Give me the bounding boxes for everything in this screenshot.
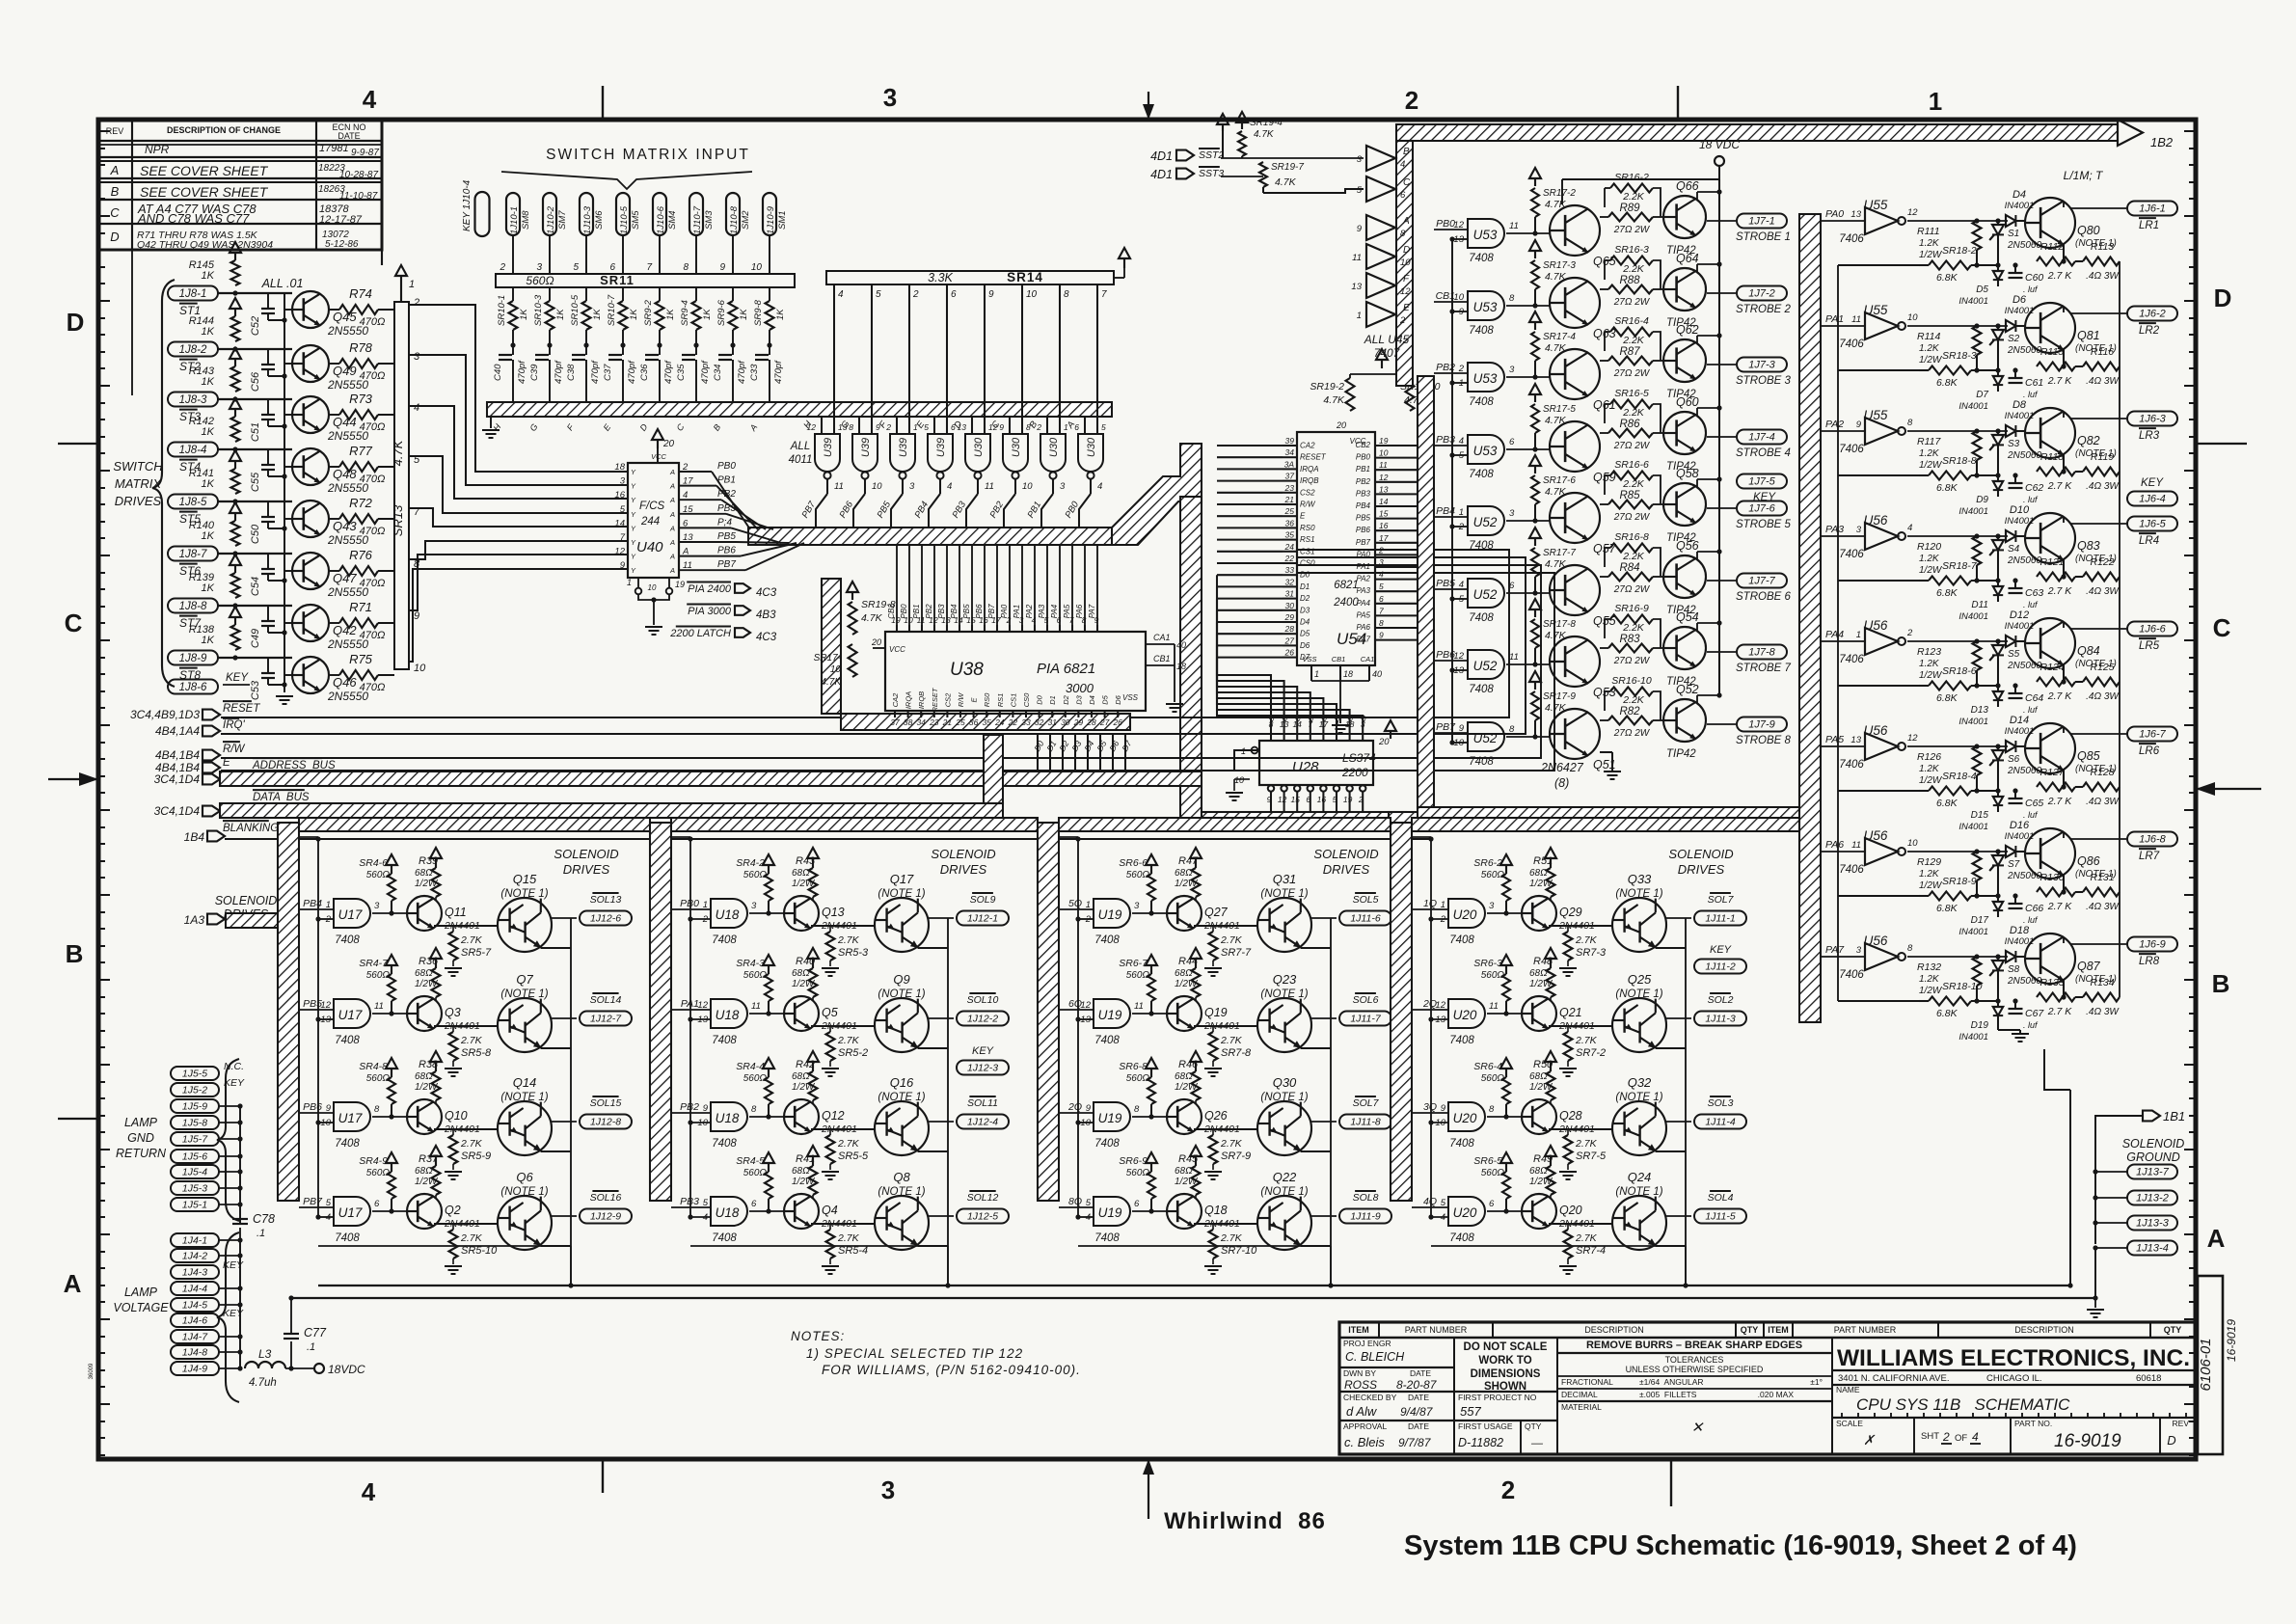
svg-text:L3: L3 (258, 1347, 272, 1361)
svg-text:CA1: CA1 (1361, 655, 1375, 663)
resistor SR17-3 4.7K (1534, 251, 1536, 258)
SCR S6 2N5060 (1992, 750, 2004, 760)
svg-text:IRQB: IRQB (917, 691, 926, 709)
svg-text:18: 18 (1343, 669, 1353, 679)
resistor R112 2.7K (2037, 257, 2075, 266)
svg-text:560Ω: 560Ω (743, 870, 768, 880)
svg-text:RESET: RESET (1300, 453, 1327, 462)
svg-text:Q83: Q83 (2077, 539, 2100, 553)
svg-text:8: 8 (1489, 1104, 1495, 1115)
svg-text:1J11-9: 1J11-9 (1350, 1211, 1380, 1223)
wire 1J10-2 to SR11 (549, 235, 551, 274)
svg-text:1/2W: 1/2W (1919, 250, 1943, 260)
svg-text:C51: C51 (250, 422, 261, 442)
svg-text:D: D (67, 308, 85, 337)
ground SR5-5 (829, 1164, 831, 1170)
resistor R131 .4ohm 3W (2083, 888, 2120, 897)
resistor SR10-1 1K (509, 301, 518, 330)
wire gate out to Q4 (749, 1210, 784, 1212)
svg-text:Q18: Q18 (1204, 1204, 1228, 1217)
svg-text:UNLESS OTHERWISE SPECIFIED: UNLESS OTHERWISE SPECIFIED (1626, 1365, 1764, 1374)
resistor R132 1.2K 1/2W (1973, 957, 1982, 986)
resistor SR4-7 560ohm group 1 (391, 965, 392, 974)
svg-text:SR9-2: SR9-2 (643, 299, 654, 326)
svg-text:3: 3 (1357, 154, 1363, 165)
power arrow R140 (234, 513, 236, 521)
transistor Q64 TIP42 (1663, 268, 1706, 311)
resistor R125 .4ohm 3W (2083, 678, 2120, 687)
transistor Q65 2N6427 (1550, 205, 1600, 256)
svg-text:SR16-2: SR16-2 (1614, 172, 1649, 183)
ground symbol solenoid ground (2094, 1298, 2096, 1308)
svg-text:20: 20 (1378, 737, 1390, 747)
wire Q16 to connector (929, 1121, 954, 1123)
resistor R144 1K pull-up (231, 316, 240, 341)
wire PB7 to gate U17 (299, 1206, 334, 1208)
connector 1J10-6 (SM4) pill (653, 193, 666, 235)
inverter U56 7406 (1865, 838, 1898, 865)
wire Q85 collector to connector 1J6-7 (2063, 727, 2065, 733)
svg-text:11: 11 (1134, 1001, 1144, 1012)
hatched stub solenoid drives entry (226, 913, 278, 928)
svg-text:Q43: Q43 (333, 519, 357, 533)
resistor R113 .4ohm 3W (2083, 257, 2120, 266)
svg-text:470pf: 470pf (700, 360, 711, 384)
svg-text:10: 10 (1453, 292, 1464, 303)
svg-text:29: 29 (1284, 612, 1295, 622)
svg-text:470Ω: 470Ω (360, 526, 386, 537)
zone divider tick right between D and C (2196, 443, 2247, 445)
power arrow R139 (234, 565, 236, 573)
connector 1J5-8 lamp gnd return (171, 1116, 219, 1129)
wire SR10-1 to cap C40 (512, 330, 514, 355)
svg-text:R87: R87 (1619, 346, 1640, 358)
resistor SR16-5 2.2K (1610, 400, 1653, 409)
title cell FIRST PROJECT NO (1454, 1420, 1557, 1421)
title SCALE cell (1913, 1418, 1915, 1454)
resistor R75 470 ohm (339, 670, 378, 680)
svg-text:SR7-9: SR7-9 (1221, 1150, 1251, 1162)
connector 1J12-2 group 2 (957, 1012, 1009, 1026)
svg-text:Q44: Q44 (333, 415, 357, 429)
svg-text:SM3: SM3 (704, 210, 715, 230)
svg-text:SR7-2: SR7-2 (1576, 1047, 1606, 1059)
wire 1B1 to solenoid ground node (2095, 1116, 2143, 1244)
wire PB5 to gate U52 (1434, 588, 1468, 590)
svg-text:32: 32 (1035, 717, 1044, 727)
resistor SR18-4 6.8K (1929, 787, 1971, 796)
connector 1J7-2 (1737, 286, 1787, 301)
svg-text:11: 11 (1851, 314, 1861, 325)
svg-text:2.7 K: 2.7 K (2047, 1006, 2073, 1017)
svg-text:13: 13 (1080, 1015, 1091, 1025)
ground SR5-4 (829, 1259, 831, 1264)
svg-text:NPR: NPR (145, 143, 170, 156)
connector 1J4-5 lamp voltage (171, 1298, 219, 1312)
svg-text:Q60: Q60 (1676, 395, 1699, 409)
svg-text:1) SPECIAL SELECTED TIP 122: 1) SPECIAL SELECTED TIP 122 (806, 1346, 1023, 1361)
wire R/W long (221, 565, 1541, 758)
svg-text:7: 7 (646, 262, 652, 273)
svg-text:8: 8 (1907, 943, 1913, 954)
svg-text:R51: R51 (1533, 855, 1553, 867)
svg-text:8: 8 (683, 262, 689, 273)
resistor SR17-8 4.7K (1534, 609, 1536, 617)
svg-text:31: 31 (1285, 589, 1295, 599)
wire Q6 emitter to rail (541, 1245, 571, 1247)
wire Q25 to connector (1666, 1017, 1691, 1019)
svg-text:5: 5 (326, 1198, 332, 1208)
svg-text:SR17-: SR17- (814, 653, 842, 663)
svg-text:4: 4 (703, 1212, 708, 1223)
svg-text:25: 25 (1284, 506, 1295, 516)
transistor Q82 TIP122 lamp row (2025, 408, 2075, 458)
inverter U55 7406 (1865, 312, 1898, 339)
capacitor C67 .1uf (2009, 1008, 2023, 1010)
svg-text:SR6-2: SR6-2 (1473, 857, 1502, 869)
wire SR10-5 to cap C38 (585, 330, 587, 355)
wires U54 D pins down to U28 D inputs (1217, 575, 1271, 731)
wire Q33 to connector (1666, 917, 1691, 919)
svg-text:10: 10 (1435, 1118, 1445, 1128)
svg-text:1K: 1K (202, 635, 215, 646)
svg-text:S3: S3 (2008, 439, 2020, 449)
zone divider tick top between 4 and 3 (602, 86, 604, 120)
zone divider tick bottom between 3 and 2 (1670, 1459, 1672, 1506)
18VDC supply strobe (1715, 156, 1724, 166)
svg-text:4C3: 4C3 (756, 587, 777, 599)
svg-text:WILLIAMS ELECTRONICS, INC.: WILLIAMS ELECTRONICS, INC. (1837, 1345, 2190, 1371)
inverter U55 7406 (1865, 207, 1898, 234)
svg-text:11: 11 (985, 481, 994, 492)
svg-text:28: 28 (1086, 717, 1096, 727)
svg-text:7408: 7408 (712, 1138, 737, 1150)
svg-text:(NOTE 1): (NOTE 1) (1615, 1092, 1662, 1103)
svg-text:15: 15 (1290, 795, 1300, 804)
svg-text:2N5060: 2N5060 (2007, 450, 2041, 461)
wire 1J8-5 to base node (218, 501, 292, 502)
wire gate out to Q29 (1487, 912, 1522, 914)
svg-text:1: 1 (1856, 630, 1861, 640)
svg-text:1J5-9: 1J5-9 (182, 1101, 207, 1113)
svg-text:DRIVES: DRIVES (115, 494, 162, 508)
svg-text:.1: .1 (257, 1228, 265, 1239)
resistor SR10-5 1K (582, 301, 591, 330)
power arrow R145 (234, 253, 236, 260)
svg-text:SR19-4: SR19-4 (1250, 118, 1283, 128)
svg-text:STROBE 3: STROBE 3 (1736, 375, 1791, 387)
svg-text:D11: D11 (1971, 600, 1988, 610)
wire Q6 to connector (552, 1215, 577, 1217)
svg-text:Q3: Q3 (445, 1006, 461, 1019)
svg-text:9: 9 (988, 289, 994, 300)
wire R73 to SR13 pin 4 (378, 414, 394, 416)
svg-text:68Ω: 68Ω (415, 1071, 433, 1082)
svg-text:1: 1 (1314, 669, 1319, 679)
svg-text:LR8: LR8 (2139, 956, 2160, 967)
svg-text:.4Ω 3W: .4Ω 3W (2086, 271, 2120, 282)
wire SR10-7 to cap C37 (622, 330, 624, 355)
svg-text:2N5060: 2N5060 (2007, 555, 2041, 566)
transistor Q53 2N6427 (1550, 636, 1600, 687)
wire gate out to Q18 (1132, 1210, 1167, 1212)
svg-text:2.7 K: 2.7 K (2047, 585, 2073, 597)
ground SR5-3 (829, 961, 831, 966)
svg-text:1.2K: 1.2K (1919, 974, 1940, 985)
connector 1J7-5 KEY (1737, 474, 1787, 489)
AND gate U19 7408 group 3 (1094, 999, 1130, 1028)
svg-text:SR10-5: SR10-5 (570, 294, 581, 326)
svg-text:10: 10 (1400, 257, 1411, 268)
svg-text:1/2W: 1/2W (1175, 979, 1199, 989)
svg-text:C53: C53 (250, 680, 261, 700)
resistor SR7-8 2.7K group 3 (1209, 1032, 1218, 1061)
gate input stub from matrix bus column 2 (858, 417, 860, 434)
svg-text:8: 8 (1379, 618, 1384, 628)
svg-text:D18: D18 (2010, 925, 2030, 936)
svg-text:SR5-2: SR5-2 (838, 1047, 868, 1059)
svg-text:LR5: LR5 (2139, 640, 2160, 652)
svg-text:37: 37 (890, 717, 900, 727)
resistor SR16-6 2.2K (1610, 472, 1653, 480)
zone divider tick left between B and A (58, 1118, 98, 1120)
svg-text:3: 3 (1509, 365, 1515, 375)
svg-text:PB1: PB1 (912, 604, 921, 618)
transistor Q66 TIP42 (1663, 196, 1706, 238)
svg-text:10: 10 (320, 1118, 331, 1128)
common emitter vertical wire (284, 293, 285, 692)
svg-text:.4Ω 3W: .4Ω 3W (2086, 481, 2120, 492)
svg-text:C78: C78 (253, 1212, 275, 1226)
svg-text:4.7K: 4.7K (1323, 394, 1345, 406)
transistor Q44 2N5550 (292, 396, 329, 433)
darlington Q8 NOTE1 group 2 (875, 1196, 929, 1250)
svg-text:4B3: 4B3 (756, 609, 776, 621)
AND gate U17 7408 group 1 (334, 1197, 370, 1226)
resistor SR16-9 2.2K (1610, 615, 1653, 624)
ground SR7-2 (1567, 1061, 1569, 1067)
transistor Q11 2N4401 group 1 (407, 896, 442, 931)
resistor SR17-4 4.7K (1534, 322, 1536, 330)
DATA BUS riser to U38 (984, 735, 1003, 803)
svg-text:36: 36 (969, 717, 979, 727)
svg-text:C33: C33 (749, 364, 760, 381)
transistor Q61 2N6427 (1550, 349, 1600, 399)
wire SR11 to resistor SR10-5 (585, 287, 587, 301)
svg-text:SHT: SHT (1921, 1431, 1939, 1442)
svg-text:PA3: PA3 (1825, 524, 1844, 535)
svg-text:1.2K: 1.2K (1919, 659, 1940, 669)
svg-text:SOLENOID: SOLENOID (554, 847, 618, 861)
resistor SR6-6 560ohm group 3 (1150, 865, 1152, 874)
svg-text:N.C.: N.C. (224, 1061, 244, 1072)
svg-text:PB6: PB6 (717, 546, 736, 556)
svg-text:8: 8 (1907, 418, 1913, 428)
resistor SR18-2 6.8K (1929, 261, 1971, 270)
svg-text:7: 7 (1101, 289, 1107, 300)
svg-text:PA5: PA5 (1825, 734, 1844, 745)
svg-text:27Ω 2W: 27Ω 2W (1613, 441, 1651, 451)
svg-text:U17: U17 (338, 1111, 363, 1125)
svg-text:3: 3 (1509, 508, 1515, 519)
AND gate U53 7408 strobe row (1468, 291, 1504, 320)
connector 1J11-6 group 3 (1339, 911, 1391, 926)
diode D10 IN4001 horizontal (2006, 530, 2015, 542)
wire SR11 to resistor SR9-6 (732, 287, 734, 301)
svg-text:4.7K: 4.7K (821, 677, 842, 688)
svg-text:2.7 K: 2.7 K (2047, 480, 2073, 492)
svg-text:SST2: SST2 (1199, 149, 1224, 161)
wire R78 to SR13 pin 3 (378, 363, 394, 365)
svg-text:DWN BY: DWN BY (1343, 1368, 1376, 1378)
svg-text:1/2W: 1/2W (1529, 1082, 1553, 1093)
wire gate out to Q11 (372, 912, 407, 914)
svg-text:3: 3 (1379, 557, 1384, 567)
svg-text:CHICAGO IL.: CHICAGO IL. (1986, 1373, 2042, 1384)
ADDRESS BUS hatched band (220, 771, 1202, 786)
svg-text:4: 4 (1086, 1212, 1091, 1223)
svg-text:IN4001: IN4001 (1958, 401, 1988, 412)
svg-text:SM2: SM2 (741, 210, 751, 230)
svg-text:SOL9: SOL9 (970, 894, 996, 906)
svg-text:.4Ω 3W: .4Ω 3W (2086, 1007, 2120, 1017)
connector 1J10-8 (SM2) pill (726, 193, 740, 235)
svg-text:PB5: PB5 (717, 531, 736, 542)
svg-text:19: 19 (675, 580, 685, 589)
svg-text:5: 5 (1379, 582, 1384, 591)
svg-text:7408: 7408 (1469, 756, 1494, 768)
AND gate U19 7408 group 3 (1094, 899, 1130, 928)
wire Q60 to connector (1707, 436, 1736, 438)
svg-text:NAME: NAME (1836, 1385, 1860, 1394)
lamp column feedback vertical wire (1837, 265, 1839, 1001)
svg-text:3: 3 (374, 901, 380, 911)
svg-text:2.7K: 2.7K (1220, 1035, 1243, 1046)
wire 2Q to gate U20 (1412, 1009, 1448, 1011)
svg-text:VCC: VCC (889, 645, 905, 654)
wire Q64 to connector (1707, 292, 1736, 294)
svg-text:. luf: . luf (2023, 284, 2039, 294)
svg-text:SR7-5: SR7-5 (1576, 1150, 1607, 1162)
svg-text:2.2K: 2.2K (1622, 191, 1645, 203)
inverter U56 7406 (1865, 733, 1898, 760)
svg-text:1J10-3: 1J10-3 (582, 205, 593, 234)
svg-text:1J12-4: 1J12-4 (967, 1117, 998, 1128)
solenoid group 1 top hatch band (299, 818, 650, 831)
gate input stub from matrix bus column 1 (821, 417, 823, 434)
svg-text:7408: 7408 (335, 1232, 360, 1244)
svg-text:560Ω: 560Ω (1126, 1168, 1150, 1178)
svg-text:PB2: PB2 (925, 604, 933, 619)
svg-text:7406: 7406 (1839, 338, 1864, 350)
connector 1J8-4 (ST4) (168, 443, 218, 457)
ground for U38 CA1 CB1 (1166, 703, 1183, 705)
svg-text:D: D (1403, 245, 1410, 256)
svg-text:PB3: PB3 (1356, 489, 1371, 498)
svg-text:26: 26 (1284, 648, 1295, 658)
svg-text:1J8-1: 1J8-1 (179, 288, 207, 300)
svg-text:RESET: RESET (223, 703, 260, 715)
resistor SR18-7 6.8K (1929, 577, 1971, 585)
svg-text:5: 5 (1441, 1198, 1446, 1208)
wire Q15 emitter to rail (541, 947, 571, 949)
svg-text:PIA 3000: PIA 3000 (688, 606, 732, 617)
svg-text:RESET: RESET (931, 687, 939, 712)
svg-text:U20: U20 (1453, 1111, 1477, 1125)
svg-text:SR7-7: SR7-7 (1221, 947, 1252, 959)
resistor SR18-8 6.8K (1929, 472, 1971, 480)
wire Q32 to connector (1666, 1121, 1691, 1123)
gate output wire PB5 (902, 479, 904, 494)
svg-text:8: 8 (1134, 1104, 1140, 1115)
U40 bottom pins 1 19 and ground (637, 578, 639, 588)
svg-text:9: 9 (703, 1103, 709, 1114)
wire gate out to Q21 (1487, 1013, 1522, 1015)
svg-text:4: 4 (414, 402, 419, 414)
svg-text:D10: D10 (2010, 504, 2030, 516)
svg-text:1J7-9: 1J7-9 (1748, 719, 1775, 731)
svg-text:D3: D3 (1300, 606, 1310, 614)
wire Q7 emitter to rail (541, 1047, 571, 1049)
svg-text:3: 3 (536, 262, 542, 273)
wire PB3 to gate U53 (1434, 445, 1468, 447)
title cell DWN BY DATE (1339, 1391, 1454, 1393)
connector 1J10-3 (SM6) pill (580, 193, 593, 235)
svg-text:9: 9 (1357, 224, 1363, 234)
svg-text:68Ω: 68Ω (1175, 968, 1193, 979)
svg-text:68Ω: 68Ω (792, 868, 810, 879)
capacitor C52 .01 (267, 293, 269, 309)
svg-text:4: 4 (1972, 1430, 1979, 1444)
svg-text:470pf: 470pf (737, 360, 747, 384)
wire 8Q to gate U19 (1059, 1206, 1094, 1208)
resistor R73 470 ohm (339, 410, 378, 420)
svg-text:SR16-8: SR16-8 (1614, 531, 1649, 543)
svg-text:15: 15 (683, 504, 693, 515)
svg-text:11: 11 (751, 1001, 761, 1012)
connector 1J4-9 lamp voltage (171, 1362, 219, 1375)
connector 1J5-4 lamp gnd return (171, 1165, 219, 1178)
wire PB2 to gate U18 (671, 1112, 711, 1114)
svg-text:PB5: PB5 (962, 604, 971, 619)
svg-text:2.7K: 2.7K (837, 1232, 860, 1244)
svg-text:5-12-86: 5-12-86 (325, 239, 359, 250)
wire R71 to SR13 pin 9 (378, 622, 394, 624)
svg-text:6.8K: 6.8K (1936, 692, 1958, 704)
transistor Q59 2N6427 (1550, 421, 1600, 472)
svg-text:SOL4: SOL4 (1708, 1192, 1734, 1204)
resistor R89 27ohm 2W (1608, 213, 1653, 222)
title cell CHECKED BY DATE (1339, 1420, 1454, 1421)
U40 VCC pin 20 (657, 448, 659, 463)
transistor Q19 2N4401 group 3 (1167, 996, 1202, 1031)
IC U28 LS374 box (1259, 741, 1373, 785)
wire C37 to ground bus (622, 360, 624, 402)
svg-text:U52: U52 (1473, 731, 1498, 745)
svg-text:U18: U18 (716, 907, 740, 922)
svg-text:1J8-6: 1J8-6 (179, 682, 207, 693)
svg-text:1J13-2: 1J13-2 (2136, 1193, 2169, 1204)
svg-text:KEY: KEY (2141, 477, 2164, 489)
svg-text:.4Ω 3W: .4Ω 3W (2086, 376, 2120, 387)
svg-text:560Ω: 560Ω (1481, 1168, 1505, 1178)
svg-text:7408: 7408 (335, 1138, 360, 1150)
svg-text:27Ω 2W: 27Ω 2W (1613, 225, 1651, 235)
svg-text:2.7K: 2.7K (837, 1138, 860, 1150)
resistor SR19-8 4.7K beside U38 (851, 592, 853, 600)
svg-text:1J8-4: 1J8-4 (179, 445, 207, 456)
svg-text:12: 12 (614, 547, 625, 557)
